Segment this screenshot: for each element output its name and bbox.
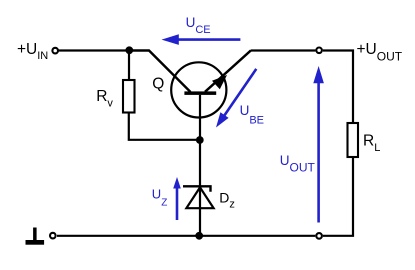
zener diode D_Z <box>183 186 214 208</box>
wire: output terminal to R_L <box>323 51 353 124</box>
bottom-left terminal <box>50 233 56 239</box>
resistor R_L <box>348 123 359 157</box>
transistor emitter lead with arrow <box>205 50 251 92</box>
wire: input terminal to node A <box>58 49 129 51</box>
bottom-right terminal <box>316 233 322 239</box>
transistor Q1 (circle, base bar, base lead) <box>171 62 226 140</box>
wire: node B through zener to node C <box>199 140 201 236</box>
wire: R_L to bottom-right terminal <box>323 157 353 236</box>
output terminal +U_OUT <box>316 48 322 54</box>
wire: node A to resistor Rv <box>128 51 130 81</box>
wire: node C to bottom-left terminal <box>57 235 199 237</box>
voltage arrow U_OUT <box>313 66 324 223</box>
ground <box>26 228 45 245</box>
voltage arrow U_Z <box>173 177 181 220</box>
wire: bottom-right terminal to node C <box>199 235 315 237</box>
wire: Rv to node B <box>129 113 196 140</box>
voltage arrow U_BE <box>216 69 256 128</box>
resistor R_V <box>123 80 135 113</box>
node A: input junction <box>125 46 133 54</box>
wire: emitter to output terminal <box>251 49 315 51</box>
input terminal +U_IN <box>52 48 58 54</box>
node C: bottom junction <box>195 232 203 240</box>
wire: node A to collector (diagonal) <box>129 51 191 93</box>
voltage arrow U_CE <box>162 34 241 45</box>
node B: base junction <box>196 136 204 144</box>
svg-text:Q: Q <box>152 76 164 93</box>
